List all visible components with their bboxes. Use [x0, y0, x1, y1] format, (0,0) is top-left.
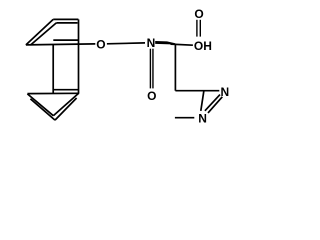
N=O double bond line 1	[149, 49, 151, 89]
bond N-methyl	[175, 117, 194, 119]
N=O double bond line 2	[152, 49, 154, 89]
svg-text:O: O	[194, 7, 203, 21]
ring bond C1=C2 outer line	[26, 19, 53, 45]
svg-text:OH: OH	[194, 39, 212, 53]
ring bond C2=C3 outer line	[53, 18, 78, 20]
bond alphaC chain vertical	[174, 45, 176, 91]
svg-text:N: N	[220, 85, 229, 99]
bond diazirine C to bottom N	[201, 91, 204, 111]
ring bond V left outer	[27, 94, 53, 116]
bond alphaC to carboxyl C	[171, 44, 193, 45]
svg-text:N: N	[198, 112, 207, 126]
svg-text:N: N	[147, 36, 156, 50]
ring bond V right outer	[53, 93, 78, 115]
C=O double bond line 2	[199, 20, 201, 37]
N=N double bond line 2	[208, 97, 222, 113]
wedge bond N to alphaC	[155, 41, 175, 45]
N=N double bond line 1	[205, 95, 220, 111]
ring bond C3-C4 right vertical	[78, 19, 80, 93]
svg-text:O: O	[147, 89, 156, 103]
ring double bond second line mid	[53, 39, 78, 41]
ring bond bottom horizontal inner	[54, 89, 79, 91]
bond chain horizontal to diazirine C and N	[175, 90, 219, 92]
ring bond V right inner	[55, 98, 77, 120]
bond ether O to N	[107, 42, 145, 45]
svg-text:O: O	[96, 38, 105, 52]
bond C1 to ether O horizontal	[26, 44, 95, 45]
ring bond C2=C3 inner line	[56, 22, 77, 24]
ring bond V left inner	[30, 99, 55, 120]
ring bond left vertical	[52, 45, 54, 94]
C=O double bond line 1	[196, 20, 198, 37]
ring bond bottom horizontal outer	[27, 92, 79, 94]
ring bond C1=C2 inner line	[30, 23, 56, 45]
